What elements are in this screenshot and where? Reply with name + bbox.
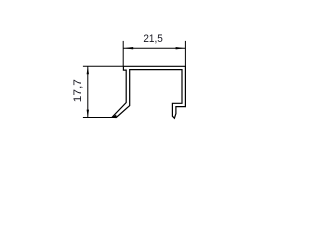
arrowhead left (dim 21,5) bbox=[124, 47, 134, 49]
dimension line 17,7 bbox=[87, 66, 89, 117]
svg-text:17,7: 17,7 bbox=[72, 79, 84, 102]
extension line left (dim 21,5) bbox=[122, 41, 124, 67]
arrowhead right (dim 21,5) bbox=[176, 47, 186, 49]
profile cross-section outline bbox=[112, 66, 185, 118]
dimension line 21,5 bbox=[123, 47, 185, 49]
arrowhead top (dim 17,7) bbox=[87, 66, 89, 74]
left foot tip (solid) bbox=[112, 115, 117, 118]
svg-text:21,5: 21,5 bbox=[143, 33, 162, 45]
extension line top (dim 17,7) bbox=[83, 65, 124, 67]
extension line bottom (dim 17,7) bbox=[83, 116, 117, 118]
extension line right (dim 21,5) bbox=[184, 41, 186, 66]
arrowhead bottom (dim 17,7) bbox=[87, 110, 89, 118]
